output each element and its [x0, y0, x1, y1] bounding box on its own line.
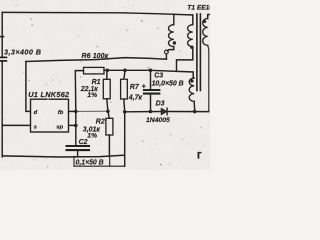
node dot w4 polarity: [190, 79, 193, 82]
transformer w1 winding: [168, 25, 173, 47]
wire left rail upper: [1, 12, 3, 57]
node dot R1 top: [106, 69, 110, 73]
capacitor C3 top lead: [150, 70, 152, 89]
transformer w4 winding: [189, 78, 194, 101]
node dot C3 top: [149, 69, 153, 73]
node dot sp junction: [74, 124, 78, 128]
node dot line D left junction: [123, 110, 127, 114]
transformer w2 winding: [188, 25, 193, 47]
wire drain line T: [26, 58, 167, 62]
node dot R7 top: [123, 69, 127, 73]
wire C2 bottom lead: [77, 151, 79, 157]
transformer T1 primary w1 drop: [173, 14, 175, 25]
paper background: [0, 0, 210, 170]
wire top rail: [2, 12, 193, 15]
wire line D cathode side: [167, 111, 209, 113]
wire drain vertical to U1 d pin: [26, 62, 31, 112]
wire fb bus: [69, 110, 77, 112]
wire R2 bottom lead: [108, 135, 110, 156]
wire bottom rail riser to line D: [124, 112, 126, 166]
wire s pin stub to left rail: [2, 124, 30, 126]
IC U1 box: [31, 99, 69, 132]
wire w2 bottom lead to line M jog: [177, 47, 193, 71]
capacitor C1 plus mark (clipped): [0, 36, 4, 38]
wire left rail lower: [1, 61, 3, 156]
node dot R1/R2 fb junction: [106, 110, 110, 114]
node dot fb/R6 junction: [74, 110, 78, 114]
node dot w4 bottom junction: [193, 110, 197, 114]
wire R7 bottom lead: [123, 99, 126, 112]
node dot w3 polarity: [203, 20, 206, 23]
wire R1 top lead: [106, 70, 108, 79]
wire line D: [125, 111, 161, 113]
node dot C3 bottom: [149, 110, 153, 114]
transformer w2 drop: [192, 15, 194, 25]
resistor R2 box: [106, 118, 113, 135]
resistor R1 box: [103, 79, 110, 99]
label box bottom edge: [74, 165, 125, 167]
wire R6 left lead down to fb bus: [75, 71, 83, 112]
capacitor C2 plates: [67, 145, 90, 147]
scan speckles: [133, 6, 134, 7]
transformer w3 top lead: [208, 15, 210, 19]
wire line M bias feed: [104, 70, 193, 78]
capacitor C3 bottom lead: [150, 95, 152, 112]
node dot w1 polarity: [173, 41, 176, 44]
capacitor C1 3,3x400V plates: [0, 56, 6, 58]
wire R1 bottom lead: [107, 99, 108, 111]
wire bottom rail: [2, 155, 125, 157]
wire R2 top lead: [108, 111, 109, 118]
node w1 bottom terminal circle: [165, 50, 169, 54]
label box left edge: [73, 156, 75, 166]
wire w3 bottom lead down right edge: [208, 45, 209, 111]
wire w1 bottom lead: [167, 47, 174, 51]
resistor R7 box: [121, 79, 128, 99]
transformer core bars: [196, 14, 198, 91]
node dot w2 polarity: [190, 46, 193, 49]
resistor R6 box: [84, 67, 105, 74]
label box divider: [109, 156, 111, 166]
capacitor C3 plates: [144, 89, 159, 91]
scan noise overlays: [0, 0, 210, 170]
transformer w3 winding: [203, 18, 208, 45]
wire w1 terminal stub: [165, 54, 167, 59]
diode D3 symbol: [161, 108, 167, 114]
wire sp/bp vertical to C2: [75, 111, 77, 146]
wire sp pin stub: [69, 124, 76, 126]
wire w4 bottom lead: [193, 101, 196, 111]
wire R7 top lead: [124, 70, 125, 79]
